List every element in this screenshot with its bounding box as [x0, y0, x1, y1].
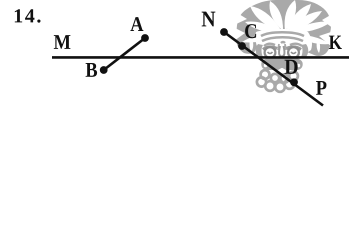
point A — [141, 34, 149, 42]
watermark glasses left lens — [265, 47, 276, 58]
label M — [54, 35, 71, 49]
label N — [202, 12, 216, 27]
watermark hair white petals — [233, 0, 334, 53]
watermark right eye — [291, 52, 296, 54]
watermark mustache — [261, 57, 302, 70]
label K — [329, 36, 342, 49]
watermark left temple — [256, 44, 263, 57]
watermark mustache center notch — [281, 68, 284, 70]
watermark right eyebrow — [287, 47, 302, 50]
label P — [316, 81, 326, 95]
watermark mustache left curl hole — [264, 64, 267, 67]
watermark forehead wrinkles — [261, 32, 304, 50]
watermark right temple — [301, 44, 308, 57]
label A — [130, 17, 143, 31]
watermark left eyebrow — [263, 47, 277, 50]
watermark nose — [279, 46, 285, 57]
point C — [238, 42, 246, 50]
watermark einstein caricature — [233, 0, 334, 92]
segment NP — [224, 32, 323, 106]
watermark chin beard curls — [257, 70, 298, 92]
problem number 14. — [15, 9, 41, 22]
point N — [220, 28, 228, 36]
point B — [100, 66, 108, 74]
label C — [245, 24, 256, 38]
watermark hair mass — [236, 0, 331, 56]
line MK — [52, 56, 349, 59]
segment BA — [104, 38, 145, 70]
watermark mustache right curl hole — [297, 64, 300, 67]
watermark left eye — [268, 52, 273, 54]
watermark glasses right lens — [288, 47, 299, 58]
label B — [86, 63, 98, 77]
point D — [290, 78, 298, 86]
label D — [285, 60, 298, 74]
watermark face area — [255, 29, 312, 56]
